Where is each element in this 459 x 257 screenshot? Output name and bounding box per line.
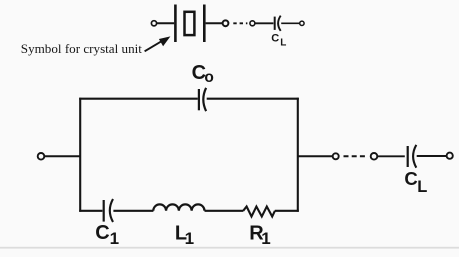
svg-text:1: 1 — [261, 229, 270, 248]
svg-text:Symbol for crystal unit: Symbol for crystal unit — [21, 41, 142, 56]
value label R1 — [249, 222, 270, 248]
crystal Y1 left plate — [174, 5, 177, 43]
svg-text:C: C — [95, 222, 109, 244]
wire (dashed link) — [233, 22, 247, 24]
svg-text:L: L — [417, 178, 427, 196]
terminal node — [333, 153, 339, 159]
capacitor C1 — [104, 199, 113, 222]
svg-text:L: L — [280, 38, 286, 49]
terminal node (far right) — [447, 153, 453, 159]
wire — [255, 22, 273, 24]
terminal node — [250, 21, 255, 26]
capacitor CL (top) — [275, 16, 281, 31]
svg-text:1: 1 — [110, 229, 119, 248]
value label L1 — [175, 222, 194, 247]
value label CL (top) — [271, 33, 286, 49]
terminal node — [223, 20, 229, 26]
terminal node (left, crystal symbol) — [151, 21, 156, 26]
inductor L1 — [153, 204, 204, 210]
terminal node (right, top) — [300, 21, 304, 25]
resistor R1 — [243, 207, 275, 217]
capacitor Co — [199, 88, 206, 111]
crystal Y1 right plate — [203, 5, 206, 43]
svg-text:C: C — [404, 168, 417, 189]
wire — [417, 155, 447, 157]
wire (between L1 and R1) — [205, 210, 244, 212]
wire (loop bottom, right of R1) — [275, 210, 299, 212]
wire — [377, 155, 404, 157]
terminal node — [371, 153, 378, 160]
svg-text:1: 1 — [185, 229, 194, 248]
wire — [206, 22, 223, 24]
wire (between C1 and L1) — [113, 210, 153, 212]
value label C1 — [95, 222, 119, 248]
svg-text:o: o — [204, 69, 213, 86]
terminal node (left, equivalent circuit) — [38, 153, 45, 160]
value label CL (bottom) — [404, 168, 427, 196]
scan artifact band — [0, 247, 459, 249]
wire — [281, 22, 300, 24]
wire (loop top, left of Co) — [79, 98, 198, 100]
wire (left lead) — [44, 155, 79, 157]
caption arrow — [145, 36, 171, 51]
value label Co — [192, 62, 214, 86]
wire (loop bottom, left of C1) — [79, 210, 102, 212]
wire (loop right side) — [297, 98, 299, 212]
capacitor CL (bottom) — [408, 145, 417, 168]
wire (loop left side) — [79, 98, 81, 212]
svg-text:C: C — [271, 33, 279, 45]
wire — [157, 22, 175, 24]
wire (right lead of loop) — [298, 155, 333, 157]
crystal Y1 body — [185, 12, 195, 35]
wire (dashed link) — [344, 155, 367, 157]
wire (loop top, right of Co) — [207, 98, 299, 100]
